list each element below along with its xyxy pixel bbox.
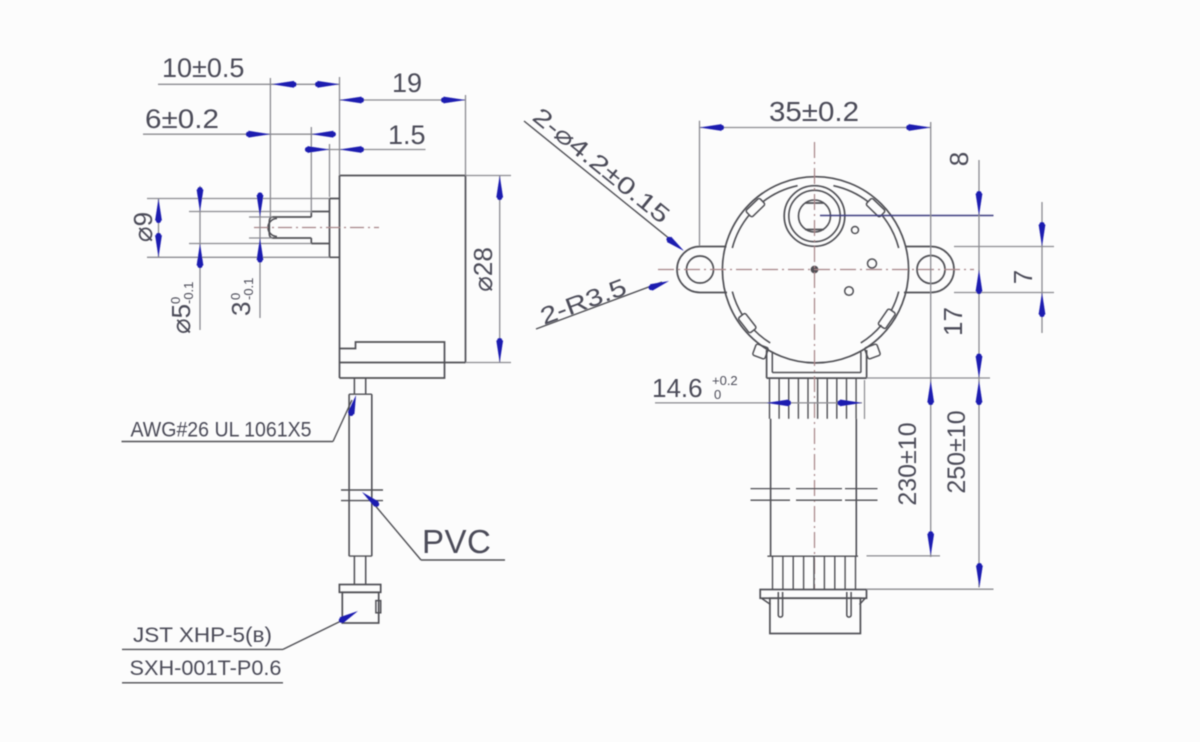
svg-text:1.5: 1.5 xyxy=(388,120,426,150)
can crimp tabs xyxy=(866,198,886,218)
dim arrows 14.6 xyxy=(767,400,789,407)
svg-text:0: 0 xyxy=(714,387,721,402)
shaft with flats front view xyxy=(799,200,831,232)
center dot xyxy=(811,266,818,273)
dim line 14.6 xyxy=(655,402,862,404)
extension line boss left xyxy=(329,144,331,197)
dim line 1.5 xyxy=(306,149,426,151)
dim line phi28 xyxy=(499,176,501,363)
dim arrows 10±0.5 xyxy=(272,81,294,88)
vertical centerline front view xyxy=(814,142,816,590)
shaft boss side view xyxy=(330,199,340,258)
dim arrows phi28 xyxy=(496,176,503,198)
svg-text:⌀28: ⌀28 xyxy=(468,247,498,292)
extension line phi5 bottom xyxy=(189,243,311,245)
dim line 10±0.5 xyxy=(158,83,340,85)
extension line phi9 bottom xyxy=(147,256,330,258)
left ear hole xyxy=(687,256,714,283)
extension line phi28 top xyxy=(466,175,512,177)
label 2-R3.5 ears xyxy=(537,274,631,331)
dim line 6±0.2 xyxy=(143,133,332,135)
shaft center extension navy xyxy=(820,215,994,217)
extension line phi5 top xyxy=(189,211,311,213)
svg-text:8: 8 xyxy=(944,152,974,166)
svg-text:PVC: PVC xyxy=(422,523,491,560)
dim arrows 35±0.2 xyxy=(700,124,722,131)
wire housing front view xyxy=(766,350,768,378)
shaft round section xyxy=(311,211,329,213)
svg-text:3: 3 xyxy=(226,302,256,316)
extension line housing bottom xyxy=(867,377,990,379)
extension line ear bottom right xyxy=(954,292,1054,294)
dim arrows phi5 xyxy=(197,190,204,212)
svg-text:19: 19 xyxy=(392,68,422,98)
dim arrows 7 xyxy=(1039,225,1046,247)
svg-text:⌀9: ⌀9 xyxy=(128,212,158,242)
horizontal centerline front view xyxy=(658,269,974,271)
svg-text:+0.2: +0.2 xyxy=(712,373,738,388)
svg-text:7: 7 xyxy=(1008,270,1038,284)
bottom cover plate side view xyxy=(340,342,445,378)
dim arrows 6±0.2 xyxy=(248,131,270,138)
leader arrow JST xyxy=(340,611,358,623)
dim line phi5 xyxy=(199,186,201,330)
extension line 14.6 right xyxy=(864,380,866,419)
svg-text:AWG#26 UL 1061X5: AWG#26 UL 1061X5 xyxy=(131,419,312,442)
extension line hole left xyxy=(699,121,701,246)
dim arrows phi9 xyxy=(155,199,162,221)
dim line 3 xyxy=(259,193,261,318)
svg-text:230±10: 230±10 xyxy=(894,422,922,505)
dim line phi9 xyxy=(158,199,160,258)
dim text 3 with tolerance xyxy=(226,278,256,316)
pvc sleeve side view xyxy=(348,394,350,556)
extension line wire end 230 xyxy=(867,555,941,557)
dim arrows 19 xyxy=(340,97,362,104)
svg-text:JST XHP-5(в): JST XHP-5(в) xyxy=(133,624,272,647)
dim text phi5 with tolerance xyxy=(166,282,196,334)
svg-text:250±10: 250±10 xyxy=(943,410,971,493)
wire pair above connector xyxy=(353,556,355,584)
right ear hole xyxy=(917,256,945,284)
extension line phi28 bottom xyxy=(466,362,512,364)
extension line shaft tip xyxy=(269,78,271,217)
JST connector front view xyxy=(760,590,866,599)
dim line 35±0.2 xyxy=(700,127,931,129)
housing side crimp right xyxy=(864,344,880,360)
extension line ear top right xyxy=(954,246,1054,248)
shaft tip chamfer xyxy=(269,217,272,238)
svg-text:10±0.5: 10±0.5 xyxy=(162,53,244,83)
label 2-phi4.2 holes xyxy=(527,103,675,230)
dim arrows 17 xyxy=(976,356,983,378)
leader arrow AWG xyxy=(348,395,356,414)
dim arrows 8 xyxy=(976,194,983,216)
right mounting ear xyxy=(904,247,954,293)
leader arrow PVC xyxy=(362,492,379,507)
JST connector side view xyxy=(339,585,380,593)
ribbon sleeve front view xyxy=(770,419,772,556)
shaft centerline xyxy=(254,227,379,229)
svg-text:SXH-001T-P0.6: SXH-001T-P0.6 xyxy=(130,657,282,680)
motor can inner rim arc xyxy=(833,186,868,202)
ribbon wires at housing xyxy=(769,378,771,419)
shaft boss circles front view xyxy=(784,186,845,247)
shaft flat section xyxy=(273,216,312,218)
face rivet circle c xyxy=(845,287,854,296)
svg-text:-0.1: -0.1 xyxy=(181,282,196,304)
extension line body rear xyxy=(465,95,467,176)
extension line flat step xyxy=(310,127,312,213)
wire break marks left xyxy=(341,489,383,491)
dim line 8 17 250 vertical xyxy=(978,160,980,588)
dim arrows 3 xyxy=(257,195,264,217)
svg-text:⌀5: ⌀5 xyxy=(166,304,196,334)
motor outer circle front view xyxy=(722,177,908,363)
svg-text:17: 17 xyxy=(938,307,968,336)
extension line connector top 250 xyxy=(867,588,994,590)
dim line 19 xyxy=(340,99,466,101)
face rivet circle a xyxy=(852,227,859,234)
face rivet circle b xyxy=(868,259,877,268)
dim arrows 250±10 xyxy=(976,381,983,403)
svg-text:14.6: 14.6 xyxy=(652,373,703,403)
wire break marks right xyxy=(751,488,791,490)
extension line body face xyxy=(339,77,341,176)
leader arrow R3.5 xyxy=(650,281,669,291)
dim arrows 230±10 xyxy=(927,381,934,403)
extension line flat top xyxy=(249,216,273,218)
leader arrow phi4.2 xyxy=(667,237,684,251)
svg-text:35±0.2: 35±0.2 xyxy=(769,96,859,127)
left mounting ear xyxy=(677,247,727,293)
ribbon wires at connector xyxy=(772,556,774,589)
motor body side view xyxy=(340,176,466,379)
extension line phi9 top xyxy=(147,198,330,200)
dim arrows 1.5 xyxy=(308,146,330,153)
dim line 7 vertical xyxy=(1041,202,1043,333)
svg-text:6±0.2: 6±0.2 xyxy=(145,104,219,134)
extension line flat bottom xyxy=(249,237,273,239)
extension line hole right / dim 230 xyxy=(930,122,932,557)
housing side crimp left xyxy=(752,344,768,360)
wire pair below body xyxy=(353,378,355,394)
svg-text:-0.1: -0.1 xyxy=(241,278,256,300)
